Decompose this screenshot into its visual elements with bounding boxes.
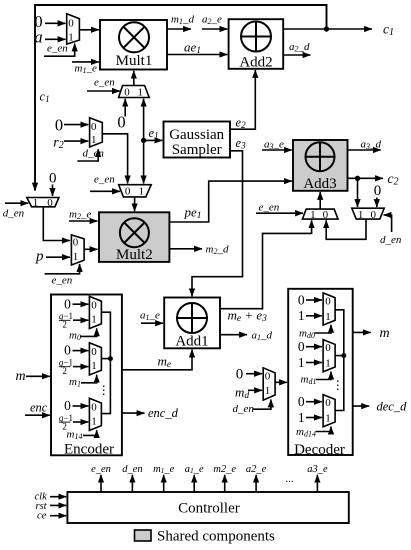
wire e_en select into mux M1 bbox=[44, 44, 75, 57]
wire c1 feedback: top and left run bbox=[35, 5, 327, 191]
wire mux M2 output up to Mult1 bbox=[133, 71, 135, 86]
label fraction q-1/2 mux E3 bbox=[59, 413, 73, 432]
svg-text:0: 0 bbox=[325, 397, 331, 409]
svg-text:ae1: ae1 bbox=[184, 40, 201, 57]
svg-text:1: 1 bbox=[325, 413, 331, 425]
svg-text:0: 0 bbox=[64, 398, 71, 413]
wire 0 into decoder mux D1 port0 bbox=[306, 299, 322, 301]
Decoder block bbox=[288, 289, 353, 455]
wire e_en select into mux M3 bbox=[90, 190, 120, 192]
wire 0 into mux M9 port0 bbox=[246, 373, 262, 375]
wire 0 down into mux M6 port0 bbox=[376, 198, 378, 208]
node e1 junction bbox=[141, 138, 146, 143]
wire encoder output bus bbox=[101, 312, 110, 413]
wire m1 select into mux E2 bbox=[81, 375, 97, 383]
svg-text:a1_d: a1_d bbox=[252, 330, 273, 343]
svg-text:1: 1 bbox=[265, 385, 271, 397]
wire mux M8 output into Mult2 bbox=[84, 248, 97, 250]
node encoder bus junction bbox=[108, 356, 113, 361]
svg-text:dec_d: dec_d bbox=[377, 399, 408, 413]
svg-text:a2_d: a2_d bbox=[289, 41, 310, 54]
wire fraction into encoder mux E2 port1 bbox=[73, 366, 88, 368]
svg-text:0: 0 bbox=[117, 113, 125, 132]
wire e_en controller output bbox=[100, 475, 102, 492]
svg-text:Sampler: Sampler bbox=[172, 142, 222, 158]
mux M2 (0/1 below Mult1) bbox=[119, 86, 150, 98]
wire mux M5 output up to Add3 bbox=[319, 192, 321, 209]
svg-text:d_en: d_en bbox=[233, 403, 255, 415]
svg-text:0: 0 bbox=[91, 121, 97, 133]
mux M8 (select e_en feeding Mult2) bbox=[71, 235, 84, 265]
mux D3 in Decoder bbox=[323, 395, 335, 427]
svg-text:2: 2 bbox=[62, 366, 67, 376]
svg-text:1: 1 bbox=[139, 186, 145, 198]
node decoder bus junction bbox=[341, 353, 346, 358]
svg-text:0: 0 bbox=[91, 346, 97, 358]
svg-text:m: m bbox=[380, 326, 390, 341]
svg-text:1: 1 bbox=[358, 209, 364, 221]
wire rst into Controller bbox=[50, 504, 66, 506]
wire pe1 from Mult2 to Add3 bbox=[169, 181, 291, 222]
wire e3 from Gaussian Sampler to Add1 bbox=[192, 151, 243, 296]
svg-text:0: 0 bbox=[49, 171, 57, 187]
svg-text:1: 1 bbox=[298, 355, 305, 370]
svg-text:Controller: Controller bbox=[178, 501, 240, 517]
wire a1_e into Add1 bbox=[141, 322, 163, 324]
multiplier Mult2 (shared) bbox=[99, 212, 169, 262]
svg-text:1: 1 bbox=[91, 134, 97, 146]
svg-text:2: 2 bbox=[62, 320, 67, 330]
svg-text:c1: c1 bbox=[383, 22, 394, 39]
legend shared components box bbox=[135, 530, 152, 541]
svg-text:0: 0 bbox=[374, 183, 382, 199]
wire 0 into decoder mux D2 port0 bbox=[306, 346, 322, 348]
svg-text:0: 0 bbox=[298, 292, 305, 307]
wire d_en select into mux M4 bbox=[77, 149, 98, 161]
wire enc_d output of Encoder bbox=[122, 412, 145, 414]
svg-text:e_en: e_en bbox=[94, 77, 115, 89]
wire a1_e controller output bbox=[193, 475, 195, 492]
wire ce into Controller bbox=[50, 515, 66, 517]
svg-text:a3_e: a3_e bbox=[307, 464, 328, 475]
svg-text:1: 1 bbox=[33, 197, 39, 209]
wire 0 into encoder mux E2 port0 bbox=[73, 350, 89, 352]
wire c1 or 0 constant into mux M7 port0 bbox=[52, 185, 54, 197]
wire dec_d output of Decoder bbox=[353, 405, 369, 407]
wire a3_e into Add3 bbox=[262, 149, 292, 151]
wire m into Encoder bbox=[26, 375, 50, 377]
mux E3 in Encoder bbox=[89, 398, 101, 430]
svg-text:1: 1 bbox=[325, 358, 331, 370]
svg-text:d_en: d_en bbox=[380, 234, 402, 246]
svg-text:Add3: Add3 bbox=[303, 176, 336, 192]
mux M3 (0/1 above Mult2) bbox=[119, 185, 152, 197]
wire a3_e controller output bbox=[316, 475, 318, 492]
mux D1 in Decoder bbox=[323, 293, 335, 325]
wire clk into Controller bbox=[50, 496, 66, 498]
wire mux M4 output to mux M3 port0 bbox=[102, 134, 127, 184]
svg-text:a1_e: a1_e bbox=[140, 310, 160, 323]
wire c2 down into mux M6 port1 bbox=[357, 178, 359, 207]
svg-text:ce: ce bbox=[37, 511, 47, 522]
svg-text:Decoder: Decoder bbox=[294, 442, 345, 458]
label fraction q-1/2 mux E2 bbox=[59, 357, 73, 376]
svg-text:Mult1: Mult1 bbox=[116, 53, 153, 69]
svg-text:1: 1 bbox=[68, 32, 74, 44]
node c1 junction on Add2 output bbox=[324, 26, 329, 31]
svg-text:Add1: Add1 bbox=[175, 333, 208, 349]
mux E2 in Encoder bbox=[89, 343, 101, 375]
wire e1 vertical bus between mux M2 and mux M3 bbox=[143, 99, 145, 184]
svg-text:0: 0 bbox=[124, 87, 130, 99]
svg-text:d_en: d_en bbox=[122, 464, 142, 475]
svg-text:⋮: ⋮ bbox=[332, 378, 344, 392]
svg-text:e_en: e_en bbox=[47, 43, 68, 55]
svg-text:1: 1 bbox=[91, 314, 97, 326]
svg-text:m2_e: m2_e bbox=[213, 464, 236, 475]
wire 0 into encoder mux E3 port0 bbox=[73, 405, 89, 407]
svg-text:0: 0 bbox=[265, 370, 271, 382]
wire mux D2 output into bus bbox=[335, 355, 344, 357]
svg-text:e1: e1 bbox=[149, 126, 159, 141]
svg-text:me: me bbox=[158, 354, 172, 371]
svg-text:m2_d: m2_d bbox=[206, 244, 229, 257]
wire 0 into mux M4 port0 bbox=[64, 124, 88, 126]
svg-text:0: 0 bbox=[91, 401, 97, 413]
wire Add2 output to c1 bbox=[283, 28, 372, 30]
svg-text:Shared components: Shared components bbox=[157, 529, 275, 545]
mux M7 (1/0 select d_en left side) bbox=[27, 198, 59, 207]
svg-text:1: 1 bbox=[137, 87, 143, 99]
wire d_en controller output bbox=[131, 475, 133, 492]
mux M4 (0/r2 select d_en) bbox=[90, 118, 103, 147]
svg-text:0: 0 bbox=[73, 237, 79, 249]
wire decoder output bus bbox=[335, 310, 344, 411]
svg-text:0: 0 bbox=[236, 366, 244, 382]
multiplier Mult1 bbox=[100, 20, 167, 70]
wire 1 into decoder mux D2 port1 bbox=[306, 362, 322, 364]
svg-text:0: 0 bbox=[323, 209, 329, 221]
svg-text:1: 1 bbox=[325, 311, 331, 323]
Gaussian Sampler block bbox=[164, 122, 231, 158]
label fraction q-1/2 mux E1 bbox=[59, 311, 73, 330]
wire m2_e into Mult2 bbox=[69, 220, 98, 222]
wire e_en select into mux M2 bbox=[87, 90, 120, 92]
wire m2_d output of Mult2 bbox=[169, 248, 202, 250]
svg-text:m1_e: m1_e bbox=[75, 63, 97, 76]
wire mux M1 to Mult1 bbox=[79, 29, 98, 31]
svg-text:a3_e: a3_e bbox=[264, 139, 284, 152]
wire c2 output of Add3 bbox=[348, 177, 384, 179]
svg-text:c1: c1 bbox=[40, 90, 50, 105]
svg-text:⋮: ⋮ bbox=[98, 383, 110, 397]
svg-text:me + e3: me + e3 bbox=[228, 308, 268, 325]
svg-text:0: 0 bbox=[298, 394, 305, 409]
wire d_en select into mux M7 bbox=[5, 202, 28, 204]
svg-text:e2: e2 bbox=[236, 116, 247, 131]
svg-text:Encoder: Encoder bbox=[64, 442, 114, 458]
wire a2_d output of Add2 bbox=[283, 54, 310, 56]
wire d_en select into mux M6 bbox=[384, 215, 392, 232]
adder Add3 (shared) bbox=[293, 140, 348, 191]
svg-text:a2_e: a2_e bbox=[202, 14, 222, 27]
wire 1 into decoder mux D3 port1 bbox=[306, 417, 322, 419]
wire m2_e controller output bbox=[224, 475, 226, 492]
wire fraction into encoder mux E3 port1 bbox=[73, 421, 88, 423]
node c2 junction bbox=[355, 176, 360, 181]
svg-text:1: 1 bbox=[298, 308, 305, 323]
wire mux E2 output into bus bbox=[101, 358, 110, 360]
wire e_en select into mux M5 bbox=[256, 212, 303, 214]
svg-text:d_en: d_en bbox=[83, 148, 105, 160]
svg-text:d_en: d_en bbox=[3, 208, 25, 220]
svg-text:1: 1 bbox=[73, 251, 79, 263]
svg-text:0: 0 bbox=[64, 296, 71, 311]
svg-text:e3: e3 bbox=[236, 136, 247, 151]
svg-text:1: 1 bbox=[91, 415, 97, 427]
wire d_en select into mux M9 bbox=[253, 400, 271, 410]
wire a into mux M1 port1 bbox=[45, 38, 66, 40]
svg-text:1: 1 bbox=[310, 209, 316, 221]
wire mux M6 output looping into mux M5 port0 bbox=[326, 219, 366, 239]
svg-text:Add2: Add2 bbox=[239, 54, 272, 70]
svg-text:e_en: e_en bbox=[91, 464, 111, 475]
wire m0 select into mux E1 bbox=[80, 328, 97, 336]
wire r2 into mux M4 port1 bbox=[64, 140, 88, 142]
Controller block bbox=[67, 492, 348, 523]
wire m14 select into mux E3 bbox=[83, 430, 97, 435]
wire 1 into decoder mux D1 port1 bbox=[306, 315, 322, 317]
wire e1 into Gaussian Sampler bbox=[144, 139, 163, 141]
svg-text:m: m bbox=[16, 369, 26, 384]
svg-text:Gaussian: Gaussian bbox=[169, 127, 224, 143]
svg-text:a3_d: a3_d bbox=[361, 139, 382, 152]
wire a2_e controller output bbox=[255, 475, 257, 492]
svg-text:a2_e: a2_e bbox=[246, 464, 267, 475]
Encoder block bbox=[51, 295, 122, 456]
wire mux M3 output down to Mult2 bbox=[134, 197, 136, 211]
svg-text:enc: enc bbox=[30, 400, 48, 414]
wire md into mux M9 port1 bbox=[248, 389, 262, 391]
wire fraction into encoder mux E1 port1 bbox=[73, 319, 88, 321]
svg-text:0: 0 bbox=[298, 339, 305, 354]
svg-text:e_en: e_en bbox=[52, 275, 73, 287]
wire me from Encoder to Add1 bbox=[122, 350, 192, 370]
svg-text:c2: c2 bbox=[388, 171, 399, 188]
adder Add1 bbox=[164, 298, 220, 349]
wire p into mux M8 port1 bbox=[46, 256, 70, 258]
svg-text:1: 1 bbox=[298, 410, 305, 425]
wire m1_d output of Mult1 bbox=[167, 28, 191, 30]
svg-text:0: 0 bbox=[47, 197, 53, 209]
wire e_en select into mux M8 bbox=[45, 264, 80, 274]
svg-text:0: 0 bbox=[55, 116, 63, 135]
wire a3_d output of Add3 bbox=[348, 149, 381, 151]
svg-text:...: ... bbox=[285, 473, 294, 485]
wire 0 into decoder mux D3 port0 bbox=[306, 401, 322, 403]
svg-text:a1_e: a1_e bbox=[185, 464, 204, 475]
svg-text:0: 0 bbox=[325, 296, 331, 308]
svg-text:e_en: e_en bbox=[94, 174, 115, 186]
svg-text:m1_d: m1_d bbox=[171, 14, 194, 27]
wire mux M9 output into Decoder bbox=[275, 381, 287, 383]
svg-text:0: 0 bbox=[91, 300, 97, 312]
mux D2 in Decoder bbox=[323, 340, 335, 372]
wire md14 select into mux D3 bbox=[316, 427, 331, 432]
wire mux M7 output to mux M8 port0 bbox=[43, 207, 70, 241]
svg-text:1: 1 bbox=[91, 360, 97, 372]
adder Add2 bbox=[229, 19, 284, 69]
wire m1_e controller output bbox=[163, 475, 165, 492]
wire constant 0 up into mux M2 port0 bbox=[124, 99, 126, 117]
svg-text:0: 0 bbox=[325, 342, 331, 354]
mux M1 (0/a select e_en) bbox=[67, 14, 80, 44]
svg-text:m1_e: m1_e bbox=[153, 464, 175, 475]
svg-text:p: p bbox=[35, 249, 44, 265]
svg-text:pe1: pe1 bbox=[184, 205, 202, 222]
wire enc into Encoder bbox=[25, 414, 50, 416]
wire m1_e into Mult1 bbox=[72, 61, 99, 63]
wire 0 into encoder mux E1 port0 bbox=[73, 303, 89, 305]
svg-text:m2_e: m2_e bbox=[69, 209, 91, 222]
wire m output of Decoder bbox=[353, 331, 371, 333]
svg-text:0: 0 bbox=[371, 209, 377, 221]
wire a2_e into Add2 bbox=[202, 28, 227, 30]
svg-text:enc_d: enc_d bbox=[148, 406, 179, 420]
wire a1_d output of Add1 bbox=[220, 334, 247, 336]
wire md1 select into mux D2 bbox=[316, 372, 331, 380]
mux M5 (1/0 select e_en below Add3) bbox=[302, 209, 338, 219]
wire ae1 from Mult1 to Add2 bbox=[167, 54, 227, 56]
wire e2 from Gaussian Sampler to Add2 bbox=[230, 70, 255, 129]
svg-text:Mult2: Mult2 bbox=[116, 247, 153, 263]
svg-text:r2: r2 bbox=[53, 136, 63, 152]
svg-text:e_en: e_en bbox=[259, 202, 280, 214]
mux M9 (0/md select d_en) bbox=[263, 368, 275, 400]
mux M6 (1/0 select d_en right of mux M5) bbox=[352, 208, 384, 219]
svg-text:0: 0 bbox=[125, 186, 131, 198]
wire md0 select into mux D1 bbox=[315, 325, 332, 333]
wire me+e3 from Add1 into mux M5 port1 bbox=[220, 220, 312, 308]
svg-text:md: md bbox=[235, 384, 249, 401]
svg-text:a: a bbox=[34, 28, 42, 47]
mux E1 in Encoder bbox=[89, 296, 101, 328]
svg-text:0: 0 bbox=[68, 18, 74, 30]
svg-text:0: 0 bbox=[64, 343, 71, 358]
wire 0 into mux M1 port0 bbox=[45, 22, 66, 24]
